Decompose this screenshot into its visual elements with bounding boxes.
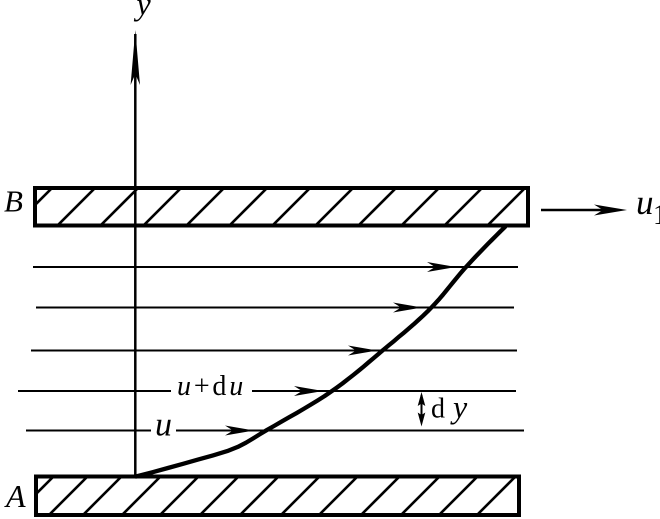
- y-axis arrowhead: [131, 30, 140, 85]
- dy top arrowhead: [418, 392, 426, 406]
- flow line 2: [36, 307, 514, 309]
- svg-text:u: u: [155, 407, 172, 444]
- flow line 3 arrowhead: [348, 346, 377, 356]
- svg-text:1: 1: [653, 200, 660, 231]
- flow line 3: [31, 350, 517, 352]
- dy bottom arrowhead: [418, 413, 426, 427]
- flow line 5 right segment: [176, 430, 524, 432]
- dy dimension arrow shaft: [421, 395, 423, 423]
- svg-text:u: u: [636, 183, 654, 222]
- svg-text:A: A: [4, 478, 26, 514]
- plate B hatching: [13, 184, 529, 227]
- flow line 5 arrowhead: [225, 426, 254, 436]
- flow line 2 arrowhead: [393, 303, 422, 313]
- flow line 1: [33, 266, 518, 268]
- flow line 4 arrowhead: [294, 386, 323, 396]
- svg-text:y: y: [134, 0, 152, 22]
- flow line 4 right segment: [252, 390, 516, 392]
- plate A hatching: [14, 477, 515, 516]
- y-axis: [134, 34, 137, 476]
- u1 arrow shaft: [541, 209, 612, 211]
- flow line 1 arrowhead: [427, 262, 456, 272]
- flow line 4 left segment (u+du line): [18, 390, 171, 392]
- flow line 5 left segment (u line): [26, 430, 151, 432]
- plate B outline: [35, 188, 528, 226]
- plate A outline: [36, 477, 519, 516]
- u1 arrowhead: [594, 205, 627, 216]
- svg-text:B: B: [4, 184, 23, 219]
- velocity profile curve: [136, 227, 505, 477]
- svg-text:u+du: u+du: [177, 371, 246, 402]
